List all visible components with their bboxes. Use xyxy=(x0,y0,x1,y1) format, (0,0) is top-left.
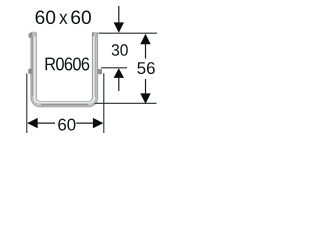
right mounting tab xyxy=(98,69,102,74)
left tube top cap xyxy=(29,32,37,38)
top extension line (top of rail) xyxy=(99,32,158,34)
dim 60: right arrowhead pointing right xyxy=(93,118,104,128)
dim 60: label xyxy=(58,119,75,131)
left mounting tab xyxy=(29,69,32,74)
U-shaped tube rail (product outline) xyxy=(32,33,95,105)
model label "R0606" xyxy=(46,57,90,70)
dim 60: right shaft xyxy=(76,122,94,124)
dim 60: left shaft xyxy=(37,122,55,124)
dim 30: lower arrowhead pointing up xyxy=(114,68,124,78)
dim 60: right extension line xyxy=(103,73,105,133)
extension line for 30 (tab level) xyxy=(101,67,127,69)
dim 56: label xyxy=(137,62,154,74)
dim 56: lower arrowhead pointing down xyxy=(140,93,150,104)
dim 56: lower shaft xyxy=(145,79,147,96)
dim 60: left arrowhead pointing left xyxy=(27,118,38,128)
dim 30: lower arrow shaft xyxy=(118,78,120,92)
dim 30: upper arrow shaft xyxy=(118,6,120,23)
extension line for 56 (bottom of rail) xyxy=(95,102,157,104)
dim 56: upper arrowhead pointing up xyxy=(140,34,150,45)
dim 30: upper arrowhead pointing down xyxy=(114,22,124,32)
right tube top cap xyxy=(92,32,98,36)
dim 60: left extension line xyxy=(26,74,28,134)
dim 56: upper shaft xyxy=(145,44,147,59)
title text "60 x 60" xyxy=(36,10,91,24)
dim 30: label xyxy=(112,44,128,56)
